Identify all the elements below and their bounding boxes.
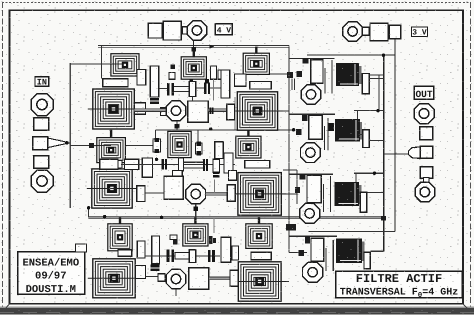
resistor R41 above L3 (100, 159, 118, 169)
resistor R22 (189, 250, 196, 263)
wire 3V supply drop (307, 39, 395, 232)
resistor R4 (189, 81, 196, 96)
resistor R14 (213, 159, 219, 172)
stub S6 to G4 (424, 178, 430, 184)
capacitor bypass C5 (4V supply) (148, 23, 162, 38)
resistor R29 tap3 bias (307, 175, 321, 202)
pad OUT square S6 (420, 167, 432, 178)
inductor L8 (181, 48, 206, 80)
resistor R15 (224, 153, 233, 173)
wire L9 to rail (269, 73, 289, 75)
resistor R31 tap1 output (362, 73, 369, 93)
inductor L10 (97, 130, 126, 163)
capacitor C15 interdigital (208, 250, 215, 262)
wire row2 output line (208, 108, 226, 115)
stub above R17 (173, 171, 183, 178)
wire tap1 output (369, 75, 383, 78)
transistor Q4 tap1 (301, 85, 320, 104)
node bus arrow (210, 45, 215, 49)
wire chain1 links (159, 87, 221, 89)
capacitor bypass C6 (4V supply) (163, 21, 181, 40)
resistor R26 (230, 270, 238, 286)
resistor R25 drain block (189, 268, 209, 290)
capacitor C9 interdigital (167, 83, 174, 96)
wire chain1 coupled pair (174, 87, 191, 92)
via chain1 a (171, 65, 176, 70)
wire tap1 feedback lines (325, 60, 332, 94)
wire vertical input bus (69, 63, 71, 208)
resistor R34 tap4 output (364, 252, 370, 268)
capacitor bypass C7 (3V supply) (370, 23, 388, 40)
pad IN square S3 (34, 156, 49, 169)
via chain4 b (209, 236, 212, 244)
resistor R23 (221, 237, 231, 262)
wire row2 collector line (155, 130, 293, 139)
via tap2 input (302, 115, 307, 121)
resistor R19 (137, 241, 145, 258)
node chain3 (155, 158, 158, 161)
resistor R43 above L5 (118, 250, 132, 256)
resistor R6 (134, 103, 145, 115)
author title block ENSEA/EMO (18, 252, 85, 296)
pad 3V supply octagon (343, 22, 363, 42)
via Q2 source ground (193, 204, 198, 217)
wire tap3 feedback lines (323, 176, 330, 212)
pad IN octagon ground G2 (31, 170, 53, 192)
resistor R9 via ends (153, 138, 161, 153)
stub 3V supply feed (363, 27, 369, 35)
wire R33 to bus (367, 192, 383, 194)
wire tap2 output (329, 111, 384, 141)
wire chain4 (145, 255, 220, 257)
resistor R40 above L2 (250, 82, 271, 90)
transistor Q1 (166, 101, 186, 121)
wire 4V supply drop (193, 40, 195, 48)
capacitor C12 interdigital (203, 159, 208, 171)
pad IN square S2 signal (33, 137, 48, 150)
capacitor C13 MIM small (150, 265, 159, 271)
stub above title block (76, 244, 87, 252)
wire tap4 feedback lines (326, 240, 333, 271)
transistor Q3 (166, 269, 186, 289)
wire tap3 output (354, 173, 384, 182)
wire L10 feed (70, 144, 153, 146)
wire R10 drop (197, 130, 199, 142)
node tap2 output junction (376, 109, 379, 112)
via tap2 gate (296, 129, 301, 135)
inductor L11 (168, 131, 191, 157)
inductor L7 (111, 54, 139, 76)
wire chain1 drops (214, 79, 235, 129)
stub Q3 gate (158, 274, 165, 281)
wire 4V distribution rail (289, 46, 307, 253)
transistor Q2 (186, 184, 206, 204)
resistor R47 (235, 74, 247, 86)
capacitor C17 MIM small (213, 172, 220, 178)
via tap1 input (303, 58, 309, 63)
4V supply label (215, 24, 232, 36)
resistor R10 via ends (196, 142, 202, 156)
via Q1 source ground (175, 121, 180, 130)
inductor L14 (183, 217, 208, 246)
resistor R28 tap2 bias (309, 115, 323, 139)
node gray bus junction (103, 215, 106, 218)
wire R24 link (146, 276, 159, 278)
capacitor C14 interdigital (167, 250, 175, 262)
wire L2 feed extension (278, 110, 289, 112)
resistor R5 (221, 70, 230, 98)
wire tap1 top rail (289, 57, 335, 59)
resistor R16 (137, 186, 145, 202)
resistor R24 (136, 266, 146, 279)
wire L6 feed extension (281, 281, 289, 283)
capacitor C16 MIM small (150, 98, 159, 104)
wire output to OUT taper (308, 154, 408, 232)
via 4V rail junction (287, 72, 293, 78)
wire output combining bus (383, 55, 385, 251)
pad OUT octagon ground G3 (414, 104, 434, 124)
transistor Q6 tap3 (300, 203, 320, 223)
stub chain3 right (229, 171, 237, 181)
stub chain3 left (118, 161, 122, 169)
wire lower-left bus segment (88, 208, 90, 217)
wire Q1 gate link (134, 109, 166, 112)
node IN feed junction (65, 141, 68, 144)
filter title block FILTRE ACTIF (336, 271, 462, 300)
capacitor C3 MIM (335, 182, 362, 206)
resistor R48 (232, 246, 238, 260)
wire Q3 source stub (175, 290, 177, 296)
resistor R32 tap2 output (363, 130, 370, 148)
node 3V bus junction (382, 54, 385, 57)
resistor R12 (142, 158, 152, 177)
pad OUT octagon ground G4 (415, 182, 435, 202)
via tap1 gate (297, 71, 302, 77)
resistor R17 gate block (164, 176, 183, 199)
node row2 junction a (209, 127, 212, 130)
wire row3 link (283, 170, 297, 204)
stub L8 feet (189, 79, 208, 83)
inductor L12 (236, 130, 261, 158)
inductor L3 (87, 169, 137, 208)
pad 4V supply octagon (187, 21, 206, 40)
taper OUT microstrip launch (409, 147, 420, 159)
pad OUT square S4 (420, 127, 433, 140)
wire top supply bus (98, 46, 289, 48)
stub Q1 gate (160, 108, 166, 116)
resistor R18 (227, 185, 235, 202)
wire tap3 top rail (289, 173, 333, 175)
wire L4 feed extension (281, 193, 297, 195)
via 4V supply junction (192, 47, 196, 52)
capacitor C4 MIM (336, 238, 364, 262)
stub chain1 a (169, 72, 175, 79)
wire tap4 top rail (289, 235, 337, 237)
bottom title-block band (0, 304, 474, 315)
wire mid horizontal gray bus (89, 216, 384, 219)
resistor R27 tap1 bias (311, 60, 323, 84)
via ground block row4 (286, 224, 296, 230)
capacitor C1 MIM (336, 63, 361, 86)
taper IN microstrip launch (48, 138, 70, 148)
resistor R13 (178, 158, 183, 171)
resistor R20 column (152, 236, 160, 264)
inductor L13 (108, 217, 132, 251)
stub 4V supply feed (182, 27, 188, 34)
stub chain1 c (218, 70, 223, 79)
inductor L5 (88, 259, 140, 298)
inductor L4 (233, 173, 286, 216)
via gray bus end junction (381, 216, 386, 221)
resistor R44 above L6 (251, 252, 271, 259)
pad OUT square S5 signal (420, 146, 433, 158)
resistor R33 tap3 output (360, 192, 367, 212)
node row2 junction b (292, 128, 295, 131)
wire chain3 (121, 163, 235, 165)
node left bus junction (87, 206, 90, 209)
wire tap4 output (370, 250, 383, 252)
wire R16 to R17 (145, 192, 164, 194)
via tap3 gate (295, 187, 300, 193)
resistor R1 (137, 70, 146, 86)
pad IN octagon ground G1 (31, 94, 53, 116)
resistor R2 (150, 66, 159, 97)
via tap4 gate (299, 250, 304, 256)
resistor R46 (103, 79, 128, 87)
resistor R8 (227, 104, 235, 119)
resistor R42 above L4 (245, 161, 270, 169)
inductor L15 (246, 217, 272, 248)
capacitor C10 interdigital (204, 83, 210, 95)
via chain4 a (173, 240, 178, 244)
inductor L6 (233, 262, 286, 301)
via chain4 c (213, 238, 216, 243)
wire input branch to L7 (70, 46, 123, 79)
resistor R7 drain block (188, 101, 209, 122)
wire tap2 feedback lines (324, 118, 327, 150)
transistor Q7 tap4 (303, 262, 323, 282)
inductor L9 (243, 47, 269, 75)
via tap4 input (305, 236, 310, 243)
OUT port label (414, 86, 433, 100)
resistor R11 (124, 159, 138, 169)
capacitor C2 MIM (335, 119, 362, 142)
inductor L1 (88, 89, 140, 129)
wire row3 output line (206, 192, 228, 195)
pad IN square S1 (34, 118, 49, 131)
wire tap2 top rail (289, 113, 335, 115)
capacitor bypass C8 (3V supply) (389, 25, 400, 38)
node tap3 output junction (373, 172, 376, 175)
node row3 junction (160, 216, 163, 219)
wire R4 drop (192, 97, 194, 101)
resistor R30 tap4 bias (311, 238, 324, 261)
3V supply label (411, 27, 427, 38)
IN port label (35, 77, 49, 88)
wire rail to tap1 drop (292, 78, 294, 90)
via L10 feed (89, 143, 94, 148)
capacitor C11 interdigital (162, 159, 168, 169)
stub chain4 top (170, 235, 177, 240)
resistor R45 (215, 142, 224, 159)
stub chain1 b (210, 66, 216, 79)
transistor Q5 tap2 (301, 143, 321, 163)
wire row5 output line (209, 277, 230, 280)
inductor L2 (232, 92, 282, 130)
wire chain3 drops (213, 180, 215, 233)
resistor R21 coupled section (175, 252, 191, 259)
wire coupled line pair (184, 162, 203, 168)
via tap3 input (299, 174, 305, 179)
